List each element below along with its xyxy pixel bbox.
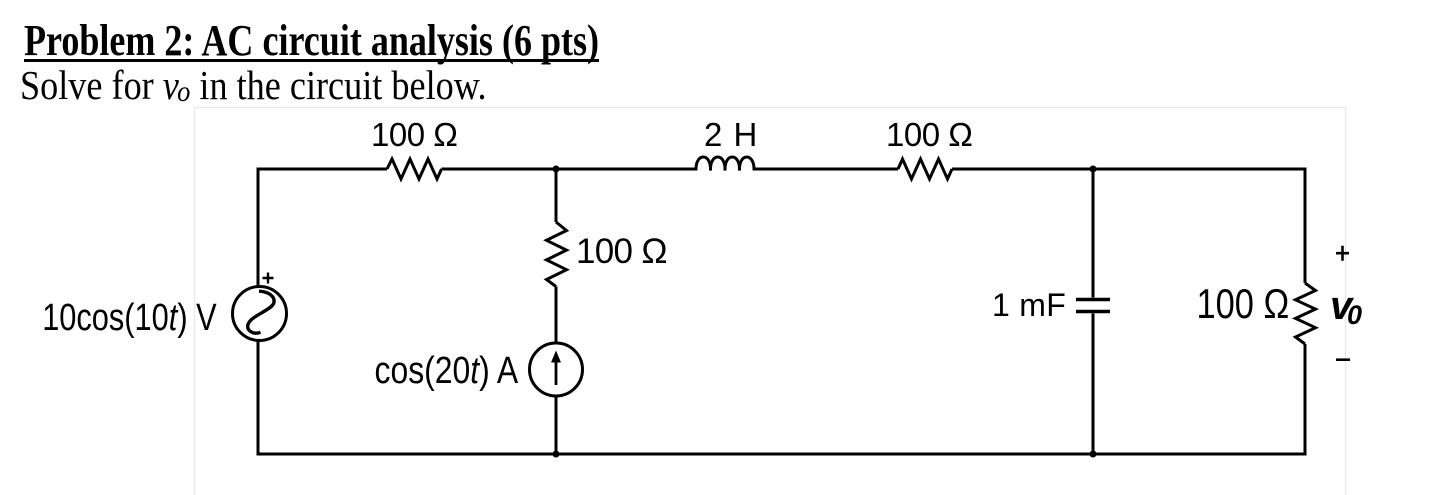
resistor R4 100 ohm (output, vertical): [1296, 283, 1316, 344]
subtitle line: [20, 65, 487, 106]
svg-text:10cos(10t) V: 10cos(10t) V: [42, 297, 216, 339]
node A junction dot: [553, 166, 560, 173]
wire: top rail from R2 to node B and right corner: [952, 168, 1305, 171]
voltage source VS1 sine symbol: [248, 291, 274, 333]
resistor R1 100 ohm (top-left, horizontal): [387, 159, 442, 179]
wire: middle branch from node A down to resistor R3: [555, 169, 558, 222]
svg-text:100 Ω: 100 Ω: [886, 116, 972, 153]
pasted image light border: [195, 108, 1346, 495]
resistor R3 100 ohm (middle, vertical): [547, 222, 567, 287]
wire: right branch lower segment: [1304, 344, 1307, 456]
svg-text:100 Ω: 100 Ω: [1197, 281, 1290, 328]
wire: left branch lower segment: [257, 341, 260, 456]
svg-text:0: 0: [1347, 300, 1362, 330]
svg-text:cos(20t) A: cos(20t) A: [375, 349, 519, 391]
wire: capacitor branch upper segment: [1092, 169, 1095, 298]
capacitor C1 top plate: [1076, 298, 1110, 301]
wire: top rail between inductor and resistor R2: [754, 168, 898, 171]
output polarity minus sign: [1336, 358, 1350, 361]
node D junction dot (middle/bottom): [553, 451, 560, 458]
svg-text:1 mF: 1 mF: [992, 287, 1066, 323]
wire: top rail between R1 and node A: [442, 168, 697, 171]
resistor R2 100 ohm (top-right, horizontal): [898, 159, 952, 179]
node B junction dot: [1090, 166, 1097, 173]
wire: bottom rail: [257, 453, 1307, 456]
svg-text:100 Ω: 100 Ω: [371, 116, 457, 153]
inductor L1 2 H: [696, 157, 754, 171]
capacitor C1 bottom plate: [1076, 310, 1110, 313]
wire: right branch upper segment: [1304, 168, 1307, 284]
svg-text:2 H: 2 H: [704, 116, 758, 153]
wire: middle branch between R3 and current source: [555, 287, 558, 343]
document title: [24, 19, 599, 63]
node E junction dot (capacitor/bottom): [1090, 451, 1097, 458]
output polarity plus sign: [1336, 246, 1349, 261]
wire: middle branch below current source to bottom rail: [555, 397, 558, 455]
voltage source VS1 polarity plus sign: [263, 273, 274, 284]
svg-text:100 Ω: 100 Ω: [576, 232, 667, 271]
current source IS1 arrow: [555, 360, 558, 385]
wire: left branch upper segment: [257, 168, 260, 287]
wire: capacitor branch lower segment: [1092, 314, 1095, 455]
voltage source VS1 circle: [233, 287, 287, 341]
current source IS1 circle: [530, 343, 583, 396]
wire: top rail segment from left corner to resistor R1: [258, 168, 387, 171]
